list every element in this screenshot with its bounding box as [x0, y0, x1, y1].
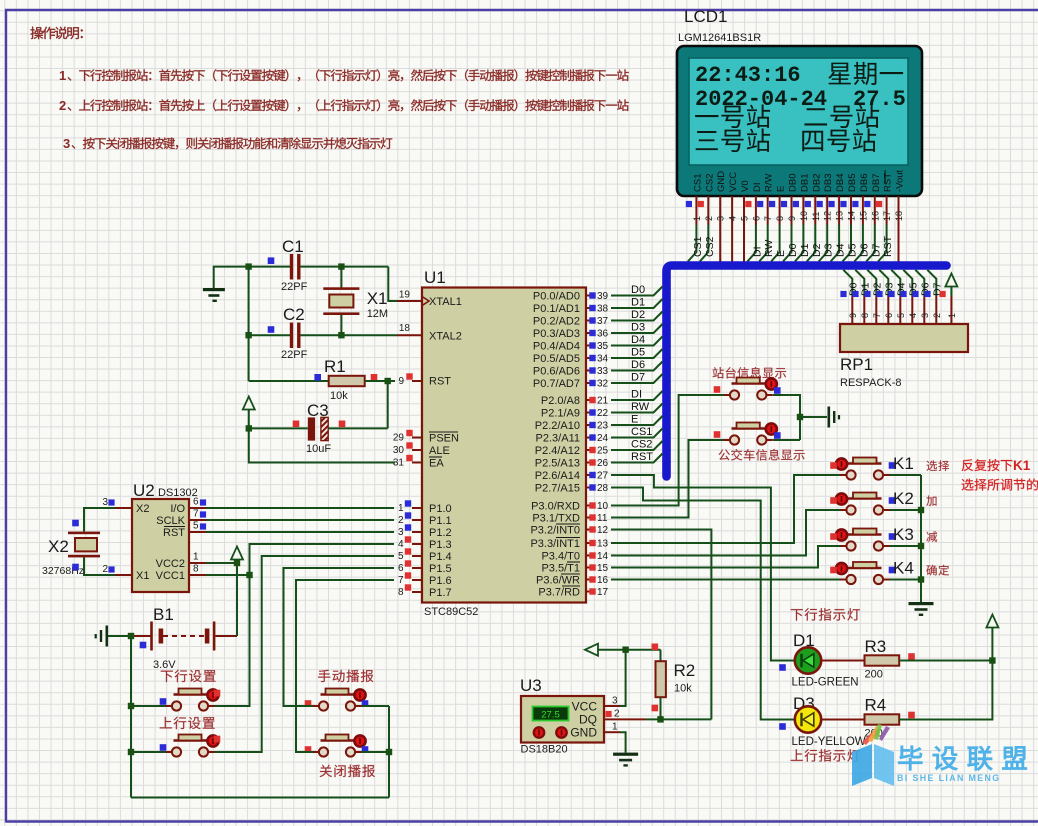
capacitor C1: [249, 266, 290, 268]
LCD pin 15 (DB6) with stub and number: [852, 174, 870, 262]
wire LCD pin 18 straight down to bus: [898, 225, 900, 263]
LCD pin 3 (GND) with stub and number: [716, 171, 728, 262]
U3 pin 3 VCC stub: [604, 705, 620, 707]
svg-text:P2.3/A11: P2.3/A11: [536, 433, 580, 445]
annotation label 确定 at K4: [926, 565, 949, 576]
LCD screen text line 4: station 3 and 4: [696, 129, 770, 152]
svg-text:RST: RST: [882, 235, 894, 257]
svg-text:RST: RST: [883, 173, 894, 192]
svg-text:36: 36: [597, 329, 609, 340]
svg-text:22:43:16: 22:43:16: [695, 63, 801, 88]
U1 pin 17 P3.7 stub: [586, 591, 590, 593]
wire close announce right to bottom loop: [362, 751, 390, 753]
svg-text:7: 7: [763, 216, 773, 221]
pin-state square at battery: [140, 642, 147, 649]
svg-text:E: E: [631, 414, 638, 426]
wire U3 GND down to ground: [620, 732, 626, 752]
svg-text:13: 13: [835, 211, 845, 221]
svg-text:LGM12641BS1R: LGM12641BS1R: [678, 32, 761, 44]
svg-text:BI SHE LIAN MENG: BI SHE LIAN MENG: [897, 773, 1001, 783]
wire LCD pin 14 to bus with net label D5: [843, 225, 852, 262]
pin-state squares at manual announce button: [305, 700, 312, 707]
wire U2 VCC1 to P1.3 net: [206, 574, 250, 576]
wire down-setting button right to U1 P1.3: [215, 544, 395, 706]
svg-text:P3.5/T1: P3.5/T1: [541, 563, 580, 575]
svg-text:DS1302: DS1302: [158, 487, 198, 499]
wire K1 left to U1 P3.3: [611, 475, 840, 543]
svg-text:U2: U2: [133, 481, 155, 500]
svg-text:9: 9: [848, 313, 858, 318]
annotation label 选择 at K1: [927, 460, 950, 471]
node junction VCC1/P1.3 vertical: [246, 572, 252, 578]
svg-text:D4: D4: [631, 334, 645, 346]
svg-text:D2: D2: [811, 243, 823, 257]
node junction ground rail at button 1: [128, 703, 134, 709]
svg-text:23: 23: [597, 421, 609, 432]
node junction at display buttons ground: [797, 414, 803, 420]
svg-text:P2.2/A10: P2.2/A10: [535, 420, 580, 432]
svg-text:33: 33: [597, 366, 609, 377]
pin-state squares at bus info button: [714, 431, 721, 438]
pin-state square at R3: [908, 653, 915, 660]
resistor R1: [329, 376, 365, 386]
svg-text:LCD1: LCD1: [684, 7, 727, 26]
U1 pin 2 P1.1 stub: [412, 519, 422, 521]
svg-text:D6: D6: [631, 359, 645, 371]
wire R3 to VCC rail: [899, 660, 992, 662]
wire U1 P2.6 to LED D1: [611, 475, 795, 661]
svg-text:3.6V: 3.6V: [153, 659, 176, 671]
U1 pin 11 P3.1 stub: [586, 517, 590, 519]
svg-text:5: 5: [740, 216, 750, 221]
svg-text:9: 9: [787, 216, 797, 221]
svg-text:22PF: 22PF: [281, 349, 308, 361]
node junction ground rail at button 2: [128, 749, 134, 755]
svg-text:P3.6/WR: P3.6/WR: [536, 575, 580, 587]
svg-text:VCC2: VCC2: [156, 558, 185, 570]
node junction VCC rail at R3: [989, 657, 995, 663]
svg-text:P1.2: P1.2: [429, 527, 452, 539]
push button K3: [840, 545, 846, 547]
svg-text:B1: B1: [153, 605, 174, 624]
node junction C1 right / X1 top: [338, 263, 344, 269]
wire LCD pin 5 straight down to bus: [743, 225, 745, 263]
svg-text:R3: R3: [865, 637, 887, 656]
svg-text:P3.3/INT1: P3.3/INT1: [530, 538, 580, 550]
wire LCD pin 9 to bus with net label D0: [783, 225, 792, 262]
resistor R4: [865, 714, 900, 724]
svg-text:DB5: DB5: [847, 174, 858, 192]
U1 pin 1 P1.0 stub: [412, 507, 422, 509]
annotation label 关闭播报 (close announce): [320, 765, 375, 777]
svg-text:E: E: [775, 250, 787, 257]
RP1 pin 8 stub and wire to bus with net label D1: [855, 270, 864, 296]
svg-text:8: 8: [398, 587, 404, 598]
ground symbol right of display buttons: [800, 416, 827, 418]
svg-text:12: 12: [823, 211, 833, 221]
annotation: operation instructions heading: [30, 27, 82, 40]
power symbol VCC for indicator LEDs: [986, 615, 998, 628]
svg-text:14: 14: [847, 211, 857, 221]
svg-text:DB7: DB7: [871, 174, 882, 192]
svg-text:DB2: DB2: [811, 174, 822, 192]
U1 pin 39 P0.0 stub: [586, 295, 590, 297]
pin-state squares at down-setting button: [160, 698, 167, 705]
U1 pin 3 P1.2 stub: [412, 531, 422, 533]
U3 adjust knobs: [534, 727, 544, 737]
svg-text:RESPACK-8: RESPACK-8: [840, 377, 902, 389]
svg-text:P1.1: P1.1: [429, 515, 452, 527]
node junction R1 right / C3 net: [385, 378, 391, 384]
U3 pin 2 DQ stub: [604, 718, 646, 720]
svg-text:2: 2: [398, 515, 404, 526]
watermark logo book icon: [852, 724, 894, 786]
svg-text:STC89C52: STC89C52: [424, 606, 478, 618]
svg-text:RW: RW: [631, 401, 650, 413]
wire X2 bottom to U2 pin X1: [84, 557, 115, 575]
U1 pin 19 XTAL1 stub with input arrow: [397, 300, 422, 302]
power symbol VCC for reset circuit: [243, 397, 255, 410]
U2 pin 6 I/O stub: [189, 507, 206, 509]
svg-text:DQ: DQ: [579, 713, 597, 727]
LCD LCD1 screen: [689, 58, 908, 165]
U2 pin 5 RST stub: [189, 531, 206, 533]
svg-text:2: 2: [102, 564, 108, 575]
pin-state square at C1: [268, 257, 275, 264]
svg-text:8: 8: [193, 564, 199, 575]
svg-text:D1: D1: [799, 243, 811, 257]
node junction X1 bottom: [338, 332, 344, 338]
svg-text:EA: EA: [429, 458, 444, 470]
svg-text:16: 16: [870, 211, 880, 221]
svg-text:8: 8: [775, 216, 785, 221]
svg-text:X2: X2: [136, 503, 149, 515]
U2 pin 7 SCLK stub: [189, 519, 206, 521]
wire K3 left to U1 P3.5: [611, 546, 840, 568]
svg-text:6: 6: [398, 563, 404, 574]
svg-text:RST: RST: [429, 376, 451, 388]
wire U2 SCLK to U1 P1.1: [206, 519, 394, 521]
svg-text:R2: R2: [674, 661, 696, 680]
svg-text:C1: C1: [282, 237, 304, 256]
wire LCD pin 7 to bus with net label RW: [759, 225, 768, 262]
svg-text:P0.4/AD4: P0.4/AD4: [533, 341, 580, 353]
svg-text:I/O: I/O: [170, 503, 185, 515]
RP1 pin 5 stub and wire to bus with net label D4: [891, 270, 900, 296]
node junction C1 left: [245, 263, 251, 269]
svg-text:U3: U3: [520, 676, 542, 695]
svg-text:3: 3: [612, 696, 618, 707]
LCD pin 10 (DB1) with stub and number: [793, 174, 811, 262]
annotation red text 反复按下K1: [962, 459, 1013, 471]
node junction bottom loop at button row 2: [386, 749, 392, 755]
svg-text:18: 18: [894, 211, 904, 221]
svg-text:1: 1: [692, 216, 702, 221]
svg-text:15: 15: [858, 211, 868, 221]
svg-text:P2.7/A15: P2.7/A15: [535, 483, 580, 495]
svg-text:X1: X1: [136, 570, 149, 582]
electrolytic capacitor C3: [249, 427, 308, 429]
U1 pin 5 P1.4 stub: [412, 555, 422, 557]
svg-text:-Vout: -Vout: [895, 169, 906, 192]
wire X2 top to U2 pin X2: [84, 508, 115, 532]
svg-text:D4: D4: [835, 243, 847, 257]
pin-state squares at K1: [830, 462, 837, 469]
wire K2 left to U1 P3.4: [611, 510, 840, 556]
svg-text:30: 30: [393, 445, 405, 456]
LCD pin 18 (-Vout) with stub and number: [894, 169, 906, 262]
wire LCD pin 10 to bus with net label D1: [795, 225, 804, 262]
push button: manual announce: [313, 705, 319, 707]
svg-text:2: 2: [59, 98, 66, 113]
LCD pin 4 (VCC) with stub and number: [728, 172, 740, 262]
U1 pin 6 P1.5 stub: [412, 567, 422, 569]
wire manual announce left to U1 P1.5: [284, 568, 395, 706]
svg-text:P2.0/A8: P2.0/A8: [541, 395, 580, 407]
svg-text:2: 2: [932, 313, 942, 318]
wire ground rail down left side: [248, 267, 250, 381]
svg-text:D5: D5: [847, 243, 859, 257]
wire K2 right to common ground rail: [890, 509, 922, 511]
wire bottom loop up to manual buttons: [388, 706, 390, 798]
U2 pin 8 VCC1 stub: [189, 574, 206, 576]
wire LCD pin 12 to bus with net label D3: [819, 225, 828, 262]
U2 pin 1 VCC2 stub: [189, 562, 206, 564]
RP1 pin 2 stub and wire to bus with net label D7: [927, 270, 936, 296]
svg-text:27.5: 27.5: [541, 710, 560, 721]
svg-text:5: 5: [193, 521, 199, 532]
svg-text:SCLK: SCLK: [156, 515, 185, 527]
pin-state squares at C3: [293, 421, 300, 428]
wire down-setting button left to ground rail: [131, 705, 166, 707]
svg-text:P3.4/T0: P3.4/T0: [541, 551, 580, 563]
svg-text:XTAL1: XTAL1: [429, 296, 462, 308]
svg-text:VCC: VCC: [728, 172, 739, 192]
svg-text:XTAL2: XTAL2: [429, 331, 462, 343]
LCD pin 8 (E) with stub and number: [769, 186, 787, 262]
RP1 pin 7 stub and wire to bus with net label D2: [867, 270, 876, 296]
push button: close announce: [313, 751, 319, 753]
capacitor C2: [249, 334, 290, 336]
svg-text:CS2: CS2: [704, 174, 715, 192]
wire battery plus to VCC2 rail: [236, 560, 238, 636]
svg-text:DI: DI: [752, 183, 763, 193]
svg-text:PSEN: PSEN: [429, 433, 459, 445]
wire up-setting button left to ground rail: [131, 751, 166, 753]
node junctions on K ground rail: [918, 507, 924, 513]
U2 pin 2 X1 stub: [115, 574, 132, 576]
wire LCD pin 6 to bus with net label DI: [747, 225, 756, 262]
svg-text:12M: 12M: [367, 308, 388, 320]
svg-text:P1.5: P1.5: [429, 563, 452, 575]
svg-text:K3: K3: [893, 525, 914, 544]
wire K1 right to common ground rail: [890, 474, 922, 476]
svg-text:DB1: DB1: [799, 174, 810, 192]
svg-text:P3.2/INT0: P3.2/INT0: [530, 525, 580, 537]
U1 pin 21 P2.0 stub: [586, 399, 590, 401]
wire bus info button right to ground: [773, 439, 800, 441]
pin-state squares at R1: [314, 374, 321, 381]
wire LCD pin 3 straight down to bus: [719, 225, 721, 263]
svg-text:RW: RW: [763, 240, 775, 257]
svg-text:K4: K4: [893, 559, 914, 578]
svg-text:19: 19: [399, 290, 411, 301]
svg-text:4: 4: [728, 216, 738, 221]
pin-state square at D1: [779, 664, 786, 671]
svg-text:R/W: R/W: [764, 174, 775, 193]
wire bottom ground loop: [131, 797, 389, 799]
pin-state square at D3: [779, 723, 786, 730]
wire manual announce right to bottom loop: [362, 705, 390, 707]
svg-text:RST: RST: [163, 527, 185, 539]
svg-text:38: 38: [597, 304, 609, 315]
LED D1 green: [795, 647, 821, 673]
U1 pin 15 P3.5 stub: [586, 567, 590, 569]
svg-text:7: 7: [193, 509, 199, 520]
svg-text:11: 11: [597, 513, 608, 524]
pin-state square at C2: [268, 326, 275, 333]
svg-text:P3.1/TXD: P3.1/TXD: [532, 513, 580, 525]
wire platform button right to ground: [773, 395, 800, 440]
push button: platform info display: [724, 394, 730, 396]
wire platform button left to U1 P3.0: [611, 395, 724, 506]
svg-text:LED-YELLOW: LED-YELLOW: [792, 736, 866, 748]
wire LCD pin 2 to bus with net label CS2: [700, 225, 709, 262]
U1 pin 38 P0.1 stub: [586, 307, 590, 309]
wire C2/X1 to XTAL2: [341, 334, 397, 336]
svg-text:7: 7: [872, 313, 882, 318]
U1 pin 22 P2.1 stub: [586, 412, 590, 414]
node junction battery minus rail: [128, 633, 134, 639]
wire R4 to VCC rail: [899, 661, 992, 720]
svg-text:K1: K1: [1013, 458, 1031, 473]
svg-text:11: 11: [811, 212, 821, 221]
pin-state squares at close announce button: [305, 746, 312, 753]
svg-text:D7: D7: [870, 243, 882, 257]
svg-text:P1.7: P1.7: [429, 587, 452, 599]
wires: U1 P0.0-P0.7 to bus with net labels D0-D7: [611, 287, 663, 296]
U1 pin 12 P3.2 stub: [586, 529, 590, 531]
svg-text:10: 10: [799, 211, 809, 221]
wire LCD pin 15 to bus with net label D6: [854, 225, 863, 262]
svg-text:34: 34: [597, 354, 609, 365]
svg-text:3: 3: [920, 313, 930, 318]
svg-text:P3.7/RD: P3.7/RD: [538, 587, 580, 599]
svg-text:10: 10: [597, 501, 609, 512]
U1 pin 9 RST stub: [412, 380, 422, 382]
svg-text:6: 6: [751, 216, 761, 221]
RP1 pin 6 stub and wire to bus with net label D3: [879, 270, 888, 296]
node junction VCC2 rail: [234, 560, 240, 566]
svg-text:P0.7/AD7: P0.7/AD7: [533, 378, 580, 390]
wire U1 P2.7 to LED D3: [611, 488, 795, 720]
wire K common ground rail: [920, 475, 922, 602]
U1 pin 14 P3.4 stub: [586, 555, 590, 557]
wire K3 right to common ground rail: [890, 545, 922, 547]
wire LCD pin 1 to bus with net label CS1: [688, 225, 697, 262]
temperature sensor U3 body: [521, 696, 604, 743]
RTC U2 body: [132, 499, 189, 592]
svg-text:D3: D3: [631, 322, 645, 334]
svg-text:12: 12: [597, 525, 609, 536]
svg-text:5: 5: [896, 313, 906, 318]
svg-text:P0.0/AD0: P0.0/AD0: [533, 291, 580, 303]
wire C1 to XTAL1: [342, 266, 389, 268]
LCD pin 13 (DB4) with stub and number: [829, 174, 847, 262]
svg-text:DI: DI: [631, 389, 642, 401]
LCD LCD1 body: [677, 46, 922, 196]
U1 pin 32 P0.7 stub: [586, 382, 590, 384]
svg-text:DB0: DB0: [788, 174, 799, 192]
LCD pin 17 (RST) with stub and number: [876, 170, 894, 262]
svg-text:29: 29: [393, 433, 405, 444]
svg-text:3: 3: [398, 527, 404, 538]
wire K4 right to common ground rail: [890, 579, 922, 581]
annotation label 上行设置 (up setting): [160, 717, 215, 729]
wire U2 I/O to U1 P1.0: [206, 507, 394, 509]
LCD pin 16 (DB7) with stub and number: [864, 174, 882, 262]
U1 pin 30 stub: [412, 449, 422, 451]
RP1 pin 9 stub and wire to bus with net label D0: [843, 270, 852, 296]
annotation label 减 at K3: [926, 531, 937, 542]
svg-text:5: 5: [398, 551, 404, 562]
annotation label 下行设置 (down setting): [161, 670, 216, 682]
wire up-setting button right to U1 P1.4: [215, 556, 395, 752]
svg-text:22PF: 22PF: [281, 281, 308, 293]
svg-text:GND: GND: [716, 171, 727, 192]
push button K1: [840, 474, 846, 476]
svg-text:D5: D5: [631, 347, 645, 359]
svg-text:VCC: VCC: [572, 700, 598, 714]
wire LCD pin 4 straight down to bus: [731, 225, 733, 263]
svg-text:1: 1: [947, 313, 957, 318]
wire U3 DQ to R2 bottom and to U1 P3.2: [646, 718, 711, 720]
svg-text:14: 14: [597, 551, 609, 562]
U1 pin 31 stub: [412, 462, 422, 464]
svg-text:10k: 10k: [674, 683, 692, 695]
svg-text:P0.1/AD1: P0.1/AD1: [533, 303, 580, 315]
U1 pin 8 P1.7 stub: [412, 591, 422, 593]
U2 pin 3 X2 stub: [115, 507, 132, 509]
svg-text:28: 28: [597, 483, 609, 494]
svg-text:CS1: CS1: [631, 426, 652, 438]
svg-text:6: 6: [884, 313, 894, 318]
U1 pin 36 P0.3 stub: [586, 332, 590, 334]
ground symbol top-left: [214, 267, 249, 288]
svg-text:GND: GND: [570, 726, 597, 740]
svg-text:R4: R4: [865, 696, 887, 715]
U3 display window showing 27.5: [533, 707, 569, 721]
svg-text:1: 1: [612, 722, 618, 733]
U1 pin 25 P2.4 stub: [586, 449, 590, 451]
svg-text:D7: D7: [631, 372, 645, 384]
U1 pin 33 P0.6 stub: [586, 370, 590, 372]
pin-state square at R4: [908, 712, 915, 719]
svg-text:D0: D0: [631, 284, 645, 296]
svg-text:27: 27: [597, 471, 609, 482]
node junction DQ at R2: [657, 716, 663, 722]
svg-text:26: 26: [597, 458, 609, 469]
U1 pin 34 P0.5 stub: [586, 357, 590, 359]
svg-text:17: 17: [597, 587, 609, 598]
U1 pin 10 P3.0 stub: [586, 505, 590, 507]
U1 pin 35 P0.4 stub: [586, 345, 590, 347]
svg-text:39: 39: [597, 291, 609, 302]
push button K2: [840, 509, 846, 511]
svg-text:D6: D6: [858, 243, 870, 257]
svg-text:10k: 10k: [330, 390, 348, 402]
RP1 pin 3 stub and wire to bus with net label D6: [915, 270, 924, 296]
